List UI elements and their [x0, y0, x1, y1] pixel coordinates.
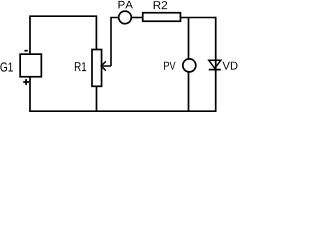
label PA — [119, 1, 133, 8]
wire PV branch top — [188, 18, 190, 60]
label PV — [164, 62, 175, 70]
label G1 — [0, 62, 12, 71]
wire right rail — [215, 17, 217, 112]
potentiometer R1 body — [92, 50, 102, 87]
wiper arrow of R1 — [101, 61, 111, 70]
resistor R2 — [143, 13, 181, 22]
wire PA to R2 — [131, 17, 143, 19]
wire left rail: G1 bottom to bottom wire — [29, 77, 31, 112]
label VD — [223, 62, 238, 70]
voltmeter PV — [183, 59, 196, 72]
wire R1 bottom stub — [96, 87, 98, 112]
label R2 — [154, 1, 167, 9]
polarity minus of G1 — [24, 50, 27, 52]
wire R2 to right rail — [180, 17, 215, 19]
label R1 — [75, 62, 86, 71]
wire top-left: G1 top to R1 top — [30, 16, 96, 54]
polarity plus of G1 — [23, 79, 29, 85]
diode VD — [209, 60, 221, 69]
ammeter PA — [119, 11, 132, 24]
wire wiper to PA — [111, 18, 119, 67]
wire bottom rail — [29, 110, 216, 112]
wire PV branch bottom — [188, 72, 190, 111]
source G1 — [20, 54, 41, 77]
